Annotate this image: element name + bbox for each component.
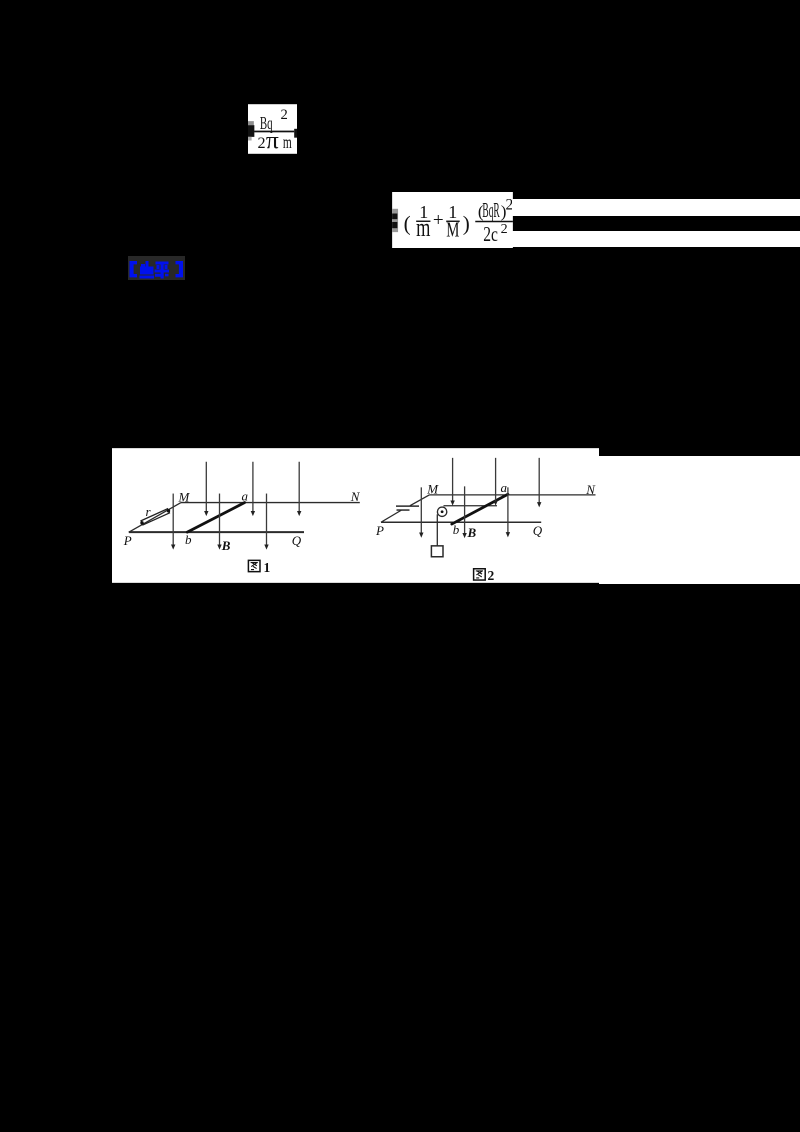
white text strip 1 [512,199,800,215]
d1 left slant P-M [129,502,181,532]
d2 pulley [437,507,446,516]
svg-text:M: M [178,489,191,504]
svg-text:2: 2 [500,221,507,237]
svg-text:2: 2 [257,135,265,152]
d2 slant upper [410,495,430,506]
svg-text:b: b [185,532,192,547]
svg-text:a: a [242,488,249,503]
svg-text:B: B [221,538,231,553]
svg-text:BqR: BqR [482,200,499,222]
edge fragment left [392,208,398,231]
svg-text:M: M [446,219,459,241]
d2 rod ab [452,494,508,524]
labels d1 [123,480,597,553]
edge fragment right [294,128,297,137]
main bar [475,220,513,222]
svg-text:N: N [585,482,596,497]
svg-text:M: M [426,481,439,496]
svg-text:P: P [375,523,384,538]
right white block [599,456,800,584]
char ping [155,262,170,279]
svg-text:Q: Q [533,523,543,538]
edge fragment left [248,121,254,125]
svg-text:π: π [266,127,279,154]
svg-text:+: + [433,210,444,231]
svg-text:b: b [453,522,460,537]
svg-text:a: a [501,480,508,495]
svg-text:Q: Q [292,533,302,548]
figure box with two diagrams [112,448,599,583]
d2 string vertical [436,514,438,545]
char dian [140,261,155,279]
d1 resistor box [141,509,169,525]
svg-text:B: B [467,525,477,540]
svg-text:m: m [283,132,292,152]
svg-text:(: ( [403,211,410,235]
fraction bar [254,130,294,132]
svg-text:2: 2 [280,107,287,123]
svg-text:2c: 2c [483,221,498,245]
svg-text:): ) [463,211,470,235]
d2 slant lower [381,510,401,522]
d2 bottom rail [381,521,541,523]
tu1 label [248,560,270,575]
tu2 label [474,568,495,583]
blue section label [128,256,185,280]
svg-text:m: m [416,212,430,241]
d2 weight square [431,546,443,557]
white text strip 2 [512,231,800,247]
formula image 1: Bq^2 / 2pi m [248,104,297,154]
field arrows d1 type A [173,458,539,546]
d2 top rail [430,494,596,496]
bracket right [176,261,184,277]
d1 bottom rail PQ [129,531,304,533]
svg-text:1: 1 [264,560,271,575]
d1 top rail MN [181,501,360,503]
d2 string horizontal [444,505,498,507]
svg-text:2: 2 [488,568,495,583]
bracket left [130,261,138,277]
d1 rod ab [187,502,244,532]
svg-text:P: P [123,533,132,548]
formula image 2: (1/m+1/M)(BqR)^2/2c^2 [392,192,513,248]
d2 pulley dot [441,510,444,513]
d2 switch bars [397,509,410,511]
svg-text:N: N [350,489,361,504]
